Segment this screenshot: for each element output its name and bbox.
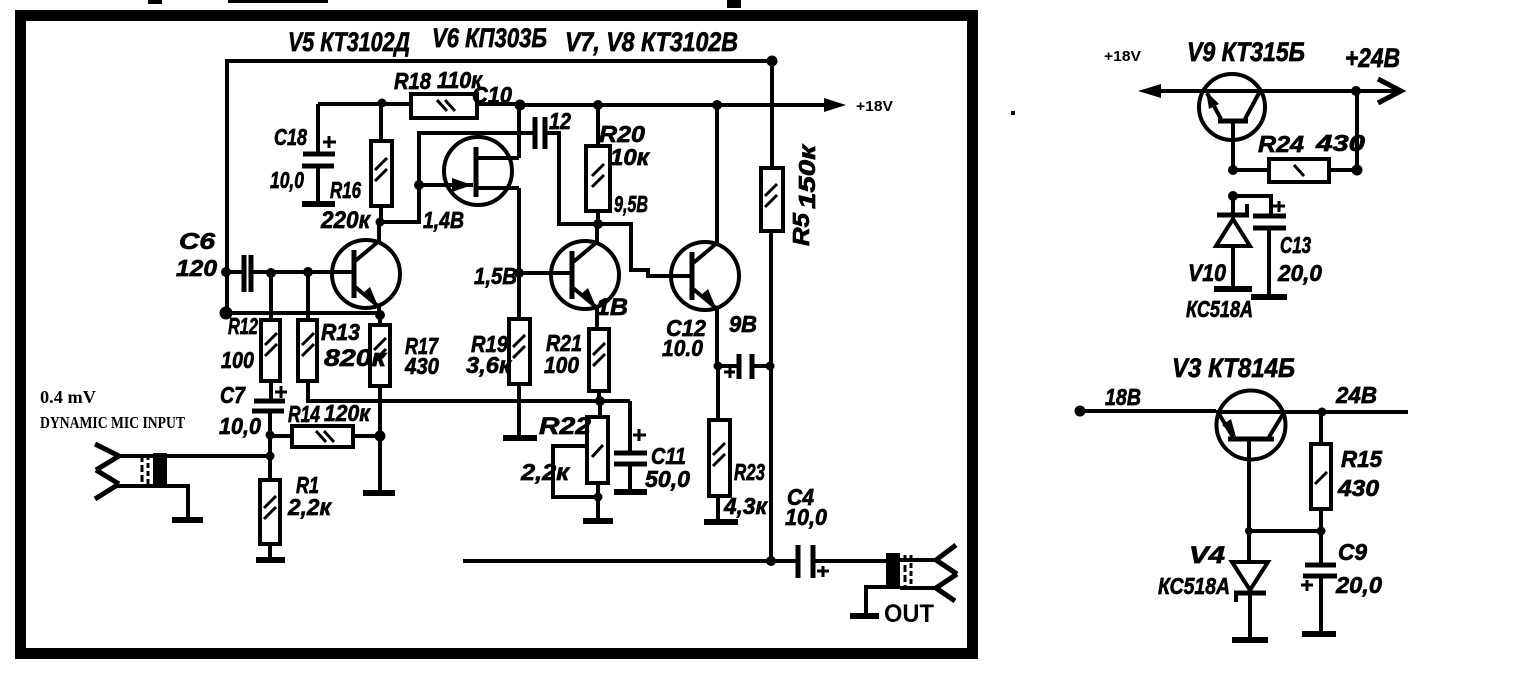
node: junction of left vertical with V5 emitter line — [220, 307, 233, 320]
resistor R19 3,6к — [509, 319, 530, 437]
wire: supply node R18 left / R16 / C18 — [318, 102, 411, 106]
svg-text:R16: R16 — [330, 177, 361, 203]
svg-text:120к: 120к — [324, 400, 371, 426]
arrow: +24V input — [1378, 79, 1401, 103]
node: V9 base / R24 / zener — [1228, 165, 1238, 175]
svg-text:R15: R15 — [1341, 446, 1383, 472]
wire: V6 drain to +18V rail — [517, 105, 521, 158]
wire: bias line R13 bottom to R21/R22/C11 — [308, 381, 630, 401]
wire: R24 right to collector line — [1355, 91, 1359, 170]
svg-text:R12: R12 — [228, 313, 258, 339]
svg-text:КС518А: КС518А — [1186, 296, 1253, 322]
svg-text:24В: 24В — [1335, 382, 1377, 408]
node: V3 base junction — [1245, 527, 1253, 535]
wire: top feedback rail from C6/emitter node to R5 — [227, 61, 773, 313]
svg-text:100: 100 — [221, 347, 254, 373]
resistor R12 100 — [261, 320, 280, 381]
svg-text:R18: R18 — [394, 68, 431, 94]
node: +18V rail / R18 / V6 drain — [515, 100, 526, 111]
wire: V5 collector to V6 gate — [380, 133, 533, 222]
ground: R17/R14 — [363, 490, 395, 496]
node: C12 right on R5 line — [766, 362, 775, 371]
svg-text:C18: C18 — [274, 124, 307, 150]
ground: C13 — [1251, 294, 1287, 300]
node: V5 collector / R16 bottom — [376, 218, 385, 227]
svg-text:C10: C10 — [472, 82, 512, 108]
ground: V10 — [1214, 286, 1252, 292]
svg-text:1В: 1В — [596, 294, 628, 321]
svg-text:V5 КТ3102Д: V5 КТ3102Д — [288, 27, 410, 57]
svg-text:430: 430 — [404, 353, 439, 379]
svg-text:2,2к: 2,2к — [287, 494, 332, 520]
node: V6 gate junction — [414, 180, 424, 190]
capacitor C7 10,0 (electrolytic) — [252, 386, 287, 435]
svg-text:V7, V8 КТ3102В: V7, V8 КТ3102В — [565, 27, 738, 57]
svg-text:100: 100 — [544, 352, 579, 378]
dynamic mic input jack — [95, 444, 167, 499]
wire: input node vertical — [268, 435, 272, 479]
svg-text:2,2к: 2,2к — [520, 459, 571, 485]
svg-text:220к: 220к — [320, 207, 372, 234]
svg-text:R23: R23 — [734, 459, 765, 485]
svg-text:12: 12 — [549, 108, 571, 134]
arrow: +18V — [824, 98, 846, 112]
svg-text:120: 120 — [176, 255, 217, 281]
ground: mic sleeve — [172, 517, 203, 523]
resistor R23 4,3к — [709, 366, 730, 521]
node: input node C7/R14 — [266, 431, 275, 440]
ground: R22 — [583, 518, 613, 524]
wire: R12 bottom to C7 — [269, 381, 273, 400]
wire: R22 side tap — [553, 446, 598, 497]
wire: V7 base lead to R19 — [517, 273, 521, 319]
svg-text:V4: V4 — [1189, 542, 1225, 569]
node: R14 right / R17 bottom junction — [375, 431, 386, 442]
capacitor C4 10,0 (output electrolytic) — [771, 545, 886, 578]
wire: V7 collector to V8 base — [598, 224, 671, 276]
resistor R15 430 — [1311, 412, 1331, 531]
resistor R21 100 — [589, 329, 609, 401]
wire: R12 top lead (crosses emitter line) — [269, 273, 273, 320]
node: base line to R13 — [303, 267, 313, 277]
svg-text:C6: C6 — [179, 228, 215, 254]
svg-text:DYNAMIC MIC INPUT: DYNAMIC MIC INPUT — [40, 413, 186, 432]
wire: output jack sleeve to ground — [866, 587, 886, 615]
svg-text:10,0: 10,0 — [270, 167, 304, 193]
svg-text:820к: 820к — [324, 345, 388, 372]
node: R21 bottom / R22 top — [595, 396, 605, 406]
node: 18V line end — [1075, 406, 1086, 417]
node: zener / C13 junction — [1228, 191, 1238, 201]
capacitor C13 20,0 — [1233, 196, 1286, 295]
capacitor C9 20,0 — [1301, 531, 1337, 632]
resistor R5 150к (feedback) — [761, 61, 783, 561]
svg-text:C7: C7 — [220, 382, 246, 408]
svg-text:10,0: 10,0 — [785, 504, 827, 530]
ground: C9 — [1302, 631, 1336, 637]
svg-text:R14: R14 — [288, 401, 320, 427]
wire: V9 emitter line — [1157, 89, 1199, 93]
resistor R1 2,2к — [260, 480, 280, 558]
transistor V3 KT814B — [1216, 391, 1286, 532]
capacitor C6 — [227, 255, 271, 292]
svg-text:20,0: 20,0 — [1335, 572, 1382, 598]
transistor V6 KP303B (JFET) — [419, 137, 519, 205]
wire: V3 emitter line (24V) — [1286, 410, 1408, 414]
svg-text:150к: 150к — [794, 143, 820, 209]
svg-text:9,5В: 9,5В — [614, 191, 648, 217]
transistor V7 KT3102V — [519, 224, 619, 329]
svg-text:C13: C13 — [1280, 232, 1311, 258]
wire: R13 top lead (crosses emitter line) — [306, 272, 310, 320]
svg-text:+18V: +18V — [1104, 48, 1141, 65]
resistor R22 2,2к — [587, 401, 608, 520]
svg-text:OUT: OUT — [884, 600, 934, 628]
wire: V9 collector line to +24V — [1265, 89, 1396, 93]
resistor R14 120к — [270, 426, 380, 447]
svg-text:50,0: 50,0 — [645, 466, 690, 492]
resistor R13 820к — [298, 320, 317, 381]
ground: output jack — [850, 613, 879, 619]
svg-text:10.0: 10.0 — [662, 335, 703, 361]
node: top rail to R5 — [767, 56, 778, 67]
node: base line to R12 — [266, 268, 276, 278]
svg-text:V9 КТ315Б: V9 КТ315Б — [1187, 37, 1305, 67]
ground: R1 — [256, 557, 285, 563]
capacitor C11 50,0 (electrolytic) — [614, 401, 647, 490]
node: R22 bottom — [594, 493, 603, 502]
node: R24 to +24V line — [1351, 86, 1361, 96]
transistor V8 KT3102V — [671, 105, 739, 366]
svg-text:КС518А: КС518А — [1158, 573, 1230, 599]
svg-text:4,3к: 4,3к — [723, 493, 768, 519]
wire: V6 source to V7 base — [517, 188, 521, 273]
svg-text:1,4В: 1,4В — [423, 207, 464, 233]
wire: base to R15 bottom — [1249, 529, 1321, 533]
svg-text:20,0: 20,0 — [1277, 260, 1322, 286]
resistor R16 220к — [371, 104, 392, 222]
transistor V9 KT315B — [1199, 74, 1265, 170]
node: output line / R5 / C4 — [766, 556, 776, 566]
resistor R17 430 — [370, 315, 390, 492]
node: R15 top on 24V line — [1318, 408, 1327, 417]
wire: mic sleeve to ground — [166, 486, 188, 519]
output jack — [886, 545, 957, 601]
node: V7 base junction — [514, 268, 524, 278]
svg-text:9В: 9В — [729, 311, 757, 337]
node: mic tip / R1 junction — [266, 452, 275, 461]
resistor R18 110к — [411, 94, 520, 118]
capacitor C12 10.0 (coupling electrolytic) — [718, 354, 770, 379]
svg-text:10к: 10к — [610, 144, 650, 170]
svg-text:10,0: 10,0 — [219, 413, 261, 439]
ground: R19 — [503, 435, 537, 441]
wire: V3 collector line (18V) — [1080, 409, 1216, 413]
node: R15 bottom / C9 — [1317, 527, 1326, 536]
svg-text:R22: R22 — [539, 413, 592, 440]
capacitor C18 10,0 (decoupling electrolytic) — [302, 104, 336, 202]
wire: +18V rail — [520, 103, 838, 107]
node: V8 collector on +18V rail — [712, 100, 722, 110]
node: V8 emitter / C12 / R23 — [714, 362, 723, 371]
ground: R23 — [704, 519, 738, 525]
svg-text:R5: R5 — [788, 212, 814, 246]
svg-text:R13: R13 — [321, 319, 360, 345]
node: R24 right corner — [1352, 165, 1363, 176]
node: V7 collector / R20 bottom / C10 — [593, 219, 603, 229]
svg-text:+18V: +18V — [856, 98, 893, 115]
svg-text:1,5В: 1,5В — [474, 263, 517, 289]
resistor R24 430 — [1233, 159, 1357, 182]
svg-text:V3 КТ814Б: V3 КТ814Б — [1172, 353, 1295, 383]
arrow: to +18V loads — [1138, 84, 1161, 98]
svg-text:R24: R24 — [1258, 131, 1304, 157]
wire: mic tip to input node — [166, 454, 270, 458]
ground: V4 — [1232, 637, 1268, 643]
svg-text:C9: C9 — [1338, 539, 1367, 565]
resistor R20 10к — [586, 105, 610, 224]
transistor V5 KT3102D — [332, 222, 400, 315]
capacitor C10 12 — [535, 117, 598, 224]
node: R16 top junction — [378, 99, 387, 108]
node: junction of left vertical with C6 left plate — [221, 267, 231, 277]
node: R20 top on +18V rail — [593, 100, 603, 110]
wire: output line — [463, 559, 771, 563]
zener diode V4 KS518A — [1232, 531, 1268, 638]
svg-text:430: 430 — [1337, 475, 1379, 501]
wire: V5 base line — [271, 270, 356, 274]
svg-text:18В: 18В — [1105, 384, 1141, 410]
ground: C18 — [302, 201, 335, 207]
svg-text:0.4 mV: 0.4 mV — [40, 387, 96, 407]
svg-text:V10: V10 — [1188, 260, 1227, 287]
ground: C11 — [614, 489, 647, 495]
svg-text:+24В: +24В — [1345, 43, 1400, 73]
svg-text:430: 430 — [1315, 130, 1366, 156]
node: V5 emitter / R17 top — [375, 310, 385, 320]
zener diode V10 KS518A — [1216, 196, 1250, 287]
wire: V5 emitter line — [226, 311, 381, 315]
svg-text:V6 КП303Б: V6 КП303Б — [432, 23, 547, 53]
svg-text:3,6к: 3,6к — [466, 352, 512, 378]
